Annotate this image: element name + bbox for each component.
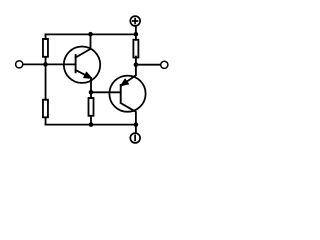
wire Q2 collector junction to minus terminal [135, 125, 137, 133]
resistor R4 [89, 98, 94, 116]
wire top rail junction to R2 top [135, 34, 137, 39]
transistor Q2 emitter lead [121, 65, 136, 86]
resistor R1 [43, 39, 48, 57]
supply plus sign [132, 18, 138, 24]
node junction supply / top rail / R2 [134, 32, 139, 37]
wire R3 bottom to bottom rail corner [45, 117, 47, 124]
supply plus terminal [130, 16, 140, 26]
wire output lead [136, 64, 161, 66]
node B junction input / R1 / R3 / Q1 base [43, 62, 48, 67]
transistor Q2 emitter arrow [121, 79, 129, 86]
transistor Q1 circle [64, 46, 100, 82]
node junction Q2 collector / bottom rail / minus terminal [134, 122, 139, 127]
transistor Q1 emitter arrow [84, 72, 92, 78]
node junction Q1 collector / top rail [88, 32, 93, 37]
wire node C lead to Q2 base [91, 91, 121, 93]
transistor Q2 base bar [120, 84, 122, 103]
wire input lead to Q1 base [23, 63, 76, 65]
transistor Q2 collector lead [121, 103, 136, 125]
transistor Q1 emitter lead [76, 70, 91, 92]
terminal output [161, 61, 168, 68]
resistor R3 [43, 100, 48, 118]
wire top rail [46, 33, 136, 35]
terminal input [16, 61, 23, 68]
node C junction Q1 emitter / R4 / Q2 base [89, 90, 94, 95]
supply minus terminal bar [134, 135, 136, 142]
transistor Q2 circle [109, 76, 145, 112]
wire bottom rail [46, 124, 136, 126]
wire R2 bottom to node D [135, 57, 137, 65]
resistor R2 [133, 40, 138, 58]
wire node C to R4 top [90, 92, 92, 98]
supply minus terminal [130, 133, 140, 143]
node junction R4 / bottom rail [89, 122, 94, 127]
transistor Q1 collector lead [76, 34, 91, 57]
wire R1 bottom to node B to R3 top [45, 57, 47, 100]
transistor Q1 base bar [75, 54, 77, 73]
wire plus terminal to top rail [135, 27, 137, 35]
wire left column top (rail corner to R1) [45, 34, 47, 39]
wire R4 bottom to bottom rail [90, 116, 92, 125]
node D junction R2 / output / Q2 emitter [134, 62, 139, 67]
